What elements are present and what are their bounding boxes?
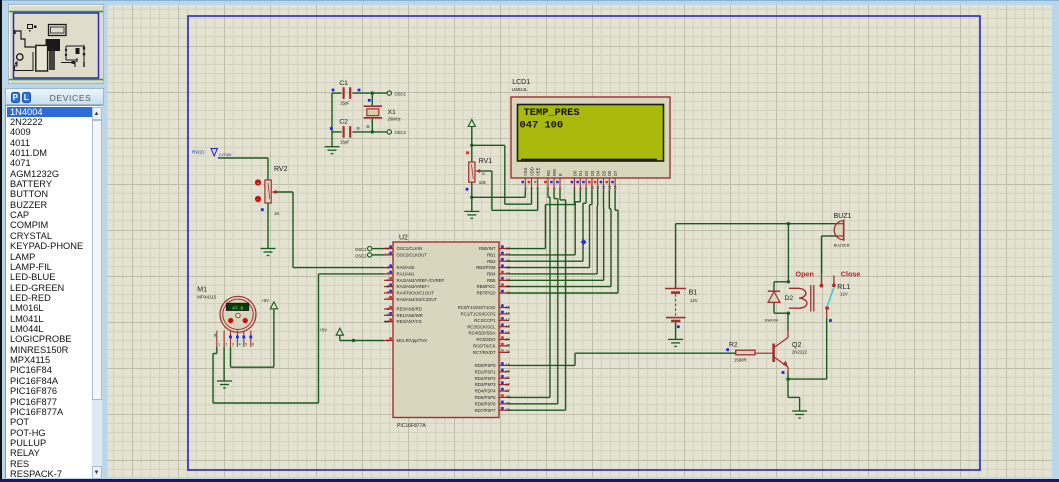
svg-text:PIC16F877A: PIC16F877A — [397, 423, 426, 429]
svg-text:27: 27 — [506, 388, 511, 393]
svg-text:RD4/PSP4: RD4/PSP4 — [475, 389, 496, 394]
svg-text:RC4/SDI/SDA: RC4/SDI/SDA — [469, 331, 496, 336]
svg-text:39: 39 — [506, 283, 511, 288]
svg-text:10: 10 — [385, 318, 390, 323]
svg-text:+5V: +5V — [319, 328, 327, 333]
svg-text:RA4/T0CKI/C1OUT: RA4/T0CKI/C1OUT — [397, 291, 435, 296]
svg-text:R2: R2 — [729, 341, 738, 348]
svg-text:5: 5 — [553, 188, 557, 190]
svg-text:M1: M1 — [197, 287, 207, 294]
svg-text:RA1/AN1: RA1/AN1 — [397, 272, 416, 277]
svg-text:E: E — [558, 173, 563, 176]
svg-text:22: 22 — [506, 381, 511, 386]
svg-text:RE0/AN5/RD: RE0/AN5/RD — [397, 307, 422, 312]
svg-text:RC2/CCP1: RC2/CCP1 — [474, 318, 496, 323]
svg-text:1N4004: 1N4004 — [764, 318, 779, 323]
svg-text:RA2/AN2/VREF-/CVREF: RA2/AN2/VREF-/CVREF — [397, 278, 445, 283]
svg-text:7: 7 — [573, 188, 577, 190]
svg-text:37: 37 — [506, 271, 511, 276]
svg-text:RS: RS — [546, 170, 551, 176]
svg-text:BUZ1: BUZ1 — [834, 213, 852, 220]
svg-text:28: 28 — [506, 394, 511, 399]
svg-text:13: 13 — [385, 245, 390, 250]
svg-text:RB0/INT: RB0/INT — [479, 246, 496, 251]
svg-text:D3: D3 — [590, 170, 595, 176]
svg-text:D2: D2 — [584, 170, 589, 176]
svg-text:2: 2 — [225, 342, 227, 346]
svg-text:OSC2/CLKOUT: OSC2/CLKOUT — [397, 253, 428, 258]
svg-text:RV2: RV2 — [274, 166, 288, 173]
svg-text:D6: D6 — [607, 170, 612, 176]
svg-text:1500R: 1500R — [734, 358, 747, 363]
svg-text:D4: D4 — [596, 170, 601, 176]
svg-text:38: 38 — [506, 277, 511, 282]
svg-text:RB2: RB2 — [487, 259, 496, 264]
svg-text:RD5/PSP5: RD5/PSP5 — [475, 395, 496, 400]
svg-text:26: 26 — [506, 349, 511, 354]
svg-text:18: 18 — [506, 324, 511, 329]
svg-text:RC0/T1OSO/T1CKI: RC0/T1OSO/T1CKI — [458, 305, 496, 310]
svg-text:RB1: RB1 — [487, 253, 496, 258]
svg-text:15pF: 15pF — [340, 140, 350, 145]
svg-text:6: 6 — [559, 188, 563, 190]
svg-text:25: 25 — [506, 343, 511, 348]
svg-text:X1: X1 — [388, 109, 397, 116]
svg-text:VDD: VDD — [529, 167, 534, 176]
svg-text:3: 3 — [536, 188, 540, 190]
svg-text:2: 2 — [530, 188, 534, 190]
svg-text:C2: C2 — [339, 119, 348, 126]
svg-text:RC3/SCK/SCL: RC3/SCK/SCL — [467, 324, 496, 329]
svg-text:5: 5 — [245, 342, 247, 346]
svg-text:RE1/AN6/WR: RE1/AN6/WR — [397, 313, 423, 318]
svg-text:RL1: RL1 — [837, 284, 850, 291]
svg-text:RB7/PGD: RB7/PGD — [477, 291, 496, 296]
svg-text:RD0/PSP0: RD0/PSP0 — [475, 363, 496, 368]
svg-text:MCLR/Vpp/THV: MCLR/Vpp/THV — [397, 338, 428, 343]
svg-text:12: 12 — [602, 186, 606, 190]
svg-text:24: 24 — [506, 336, 511, 341]
svg-text:LM044L: LM044L — [512, 87, 528, 92]
svg-text:RC7/RX/DT: RC7/RX/DT — [473, 350, 496, 355]
svg-text:8: 8 — [579, 188, 583, 190]
svg-text:D1: D1 — [578, 170, 583, 176]
svg-text:10: 10 — [590, 186, 594, 190]
svg-text:RC6/TX/CK: RC6/TX/CK — [473, 344, 496, 349]
svg-text:OSC1: OSC1 — [395, 91, 407, 96]
svg-text:BUZZER: BUZZER — [834, 243, 850, 248]
svg-text:6: 6 — [252, 342, 254, 346]
svg-text:+5V: +5V — [262, 298, 270, 303]
svg-text:14: 14 — [614, 186, 618, 190]
svg-text:OSC1: OSC1 — [355, 247, 367, 252]
svg-text:36: 36 — [506, 264, 511, 269]
svg-text:35: 35 — [506, 258, 511, 263]
svg-text:16: 16 — [506, 311, 511, 316]
svg-text:RD1/PSP1: RD1/PSP1 — [475, 369, 496, 374]
svg-text:OSC1/CLKIN: OSC1/CLKIN — [397, 246, 423, 251]
svg-text:14: 14 — [385, 252, 390, 257]
svg-text:4: 4 — [239, 342, 241, 346]
svg-text:+: + — [257, 181, 259, 185]
svg-text:TEMP_PRES: TEMP_PRES — [524, 107, 580, 119]
svg-text:4: 4 — [547, 188, 551, 190]
svg-text:RV(2): RV(2) — [192, 150, 204, 155]
svg-text:B1: B1 — [689, 290, 698, 297]
svg-text:21: 21 — [506, 375, 511, 380]
svg-text:20MHz: 20MHz — [388, 117, 401, 122]
svg-text:17: 17 — [506, 317, 511, 322]
svg-text:34: 34 — [506, 252, 511, 257]
svg-text:LCD1: LCD1 — [512, 79, 530, 86]
svg-text:15: 15 — [506, 304, 511, 309]
svg-text:23: 23 — [506, 330, 511, 335]
svg-text:RW: RW — [552, 169, 557, 176]
svg-text:2.27083: 2.27083 — [219, 153, 231, 157]
svg-text:RC5/SDO: RC5/SDO — [476, 337, 496, 342]
svg-text:30: 30 — [506, 407, 511, 412]
svg-text:1: 1 — [218, 342, 220, 346]
svg-text:OSC2: OSC2 — [355, 253, 367, 258]
svg-text:D2: D2 — [785, 295, 794, 302]
svg-text:29: 29 — [506, 401, 511, 406]
svg-text:40: 40 — [506, 290, 511, 295]
svg-text:RA5/AN4/SS/C2OUT: RA5/AN4/SS/C2OUT — [397, 297, 438, 302]
svg-text:047 100: 047 100 — [520, 119, 564, 131]
svg-text:RD7/PSP7: RD7/PSP7 — [475, 408, 496, 413]
svg-text:20: 20 — [506, 369, 511, 374]
svg-text:12V: 12V — [690, 298, 698, 303]
svg-text:47.8: 47.8 — [232, 305, 243, 311]
svg-text:VSS: VSS — [523, 167, 528, 176]
svg-text:RD6/PSP6: RD6/PSP6 — [475, 401, 496, 406]
svg-text:RD3/PSP3: RD3/PSP3 — [475, 382, 496, 387]
svg-text:RC1/T1OSI/CCP2: RC1/T1OSI/CCP2 — [461, 312, 496, 317]
svg-text:RB3/PGM: RB3/PGM — [476, 265, 496, 270]
svg-text:RB6/PGC: RB6/PGC — [477, 284, 496, 289]
svg-text:MPX4115: MPX4115 — [197, 294, 217, 299]
svg-text:D7: D7 — [613, 170, 618, 176]
svg-text:RE2/AN7/CS: RE2/AN7/CS — [397, 319, 422, 324]
svg-text:VEE: VEE — [536, 167, 541, 176]
svg-text:RB4: RB4 — [487, 272, 496, 277]
svg-text:OSC2: OSC2 — [395, 130, 407, 135]
svg-text:10k: 10k — [479, 180, 487, 185]
svg-text:RV1: RV1 — [479, 158, 493, 165]
svg-text:11: 11 — [596, 186, 600, 190]
svg-text:RD2/PSP2: RD2/PSP2 — [475, 376, 496, 381]
svg-text:C1: C1 — [339, 80, 348, 87]
svg-text:1K: 1K — [274, 211, 279, 216]
svg-text:15pF: 15pF — [340, 101, 350, 106]
svg-text:Close: Close — [841, 270, 861, 279]
svg-text:13: 13 — [608, 186, 612, 190]
svg-text:U2: U2 — [399, 235, 408, 242]
svg-text:9: 9 — [585, 188, 589, 190]
svg-text:RA0/AN0: RA0/AN0 — [397, 265, 416, 270]
svg-text:Open: Open — [796, 270, 814, 279]
svg-text:D0: D0 — [572, 170, 577, 176]
svg-text:1: 1 — [524, 188, 528, 190]
svg-text:D5: D5 — [601, 170, 606, 176]
svg-text:2N2222: 2N2222 — [792, 350, 808, 355]
svg-text:12V: 12V — [840, 292, 848, 297]
svg-text:RA3/AN3/VREF+: RA3/AN3/VREF+ — [397, 284, 431, 289]
svg-text:3: 3 — [232, 342, 234, 346]
svg-text:33: 33 — [506, 245, 511, 250]
svg-text:Q2: Q2 — [792, 342, 801, 349]
svg-text:RB5: RB5 — [487, 278, 496, 283]
